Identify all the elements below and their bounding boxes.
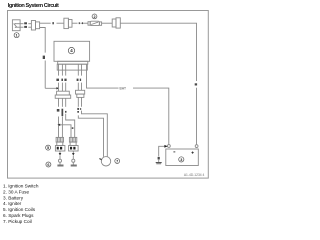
battery B1 [166, 145, 199, 166]
ref 4 igniter [68, 47, 74, 53]
igniter pins (left group) [59, 64, 66, 75]
pickup coil tab [99, 159, 101, 160]
pickup wire A [82, 111, 108, 157]
label on down branch x45 [43, 56, 45, 59]
label on ground wire [158, 157, 160, 160]
label on coil2 branch [72, 127, 74, 129]
igniter shroud [57, 64, 87, 70]
wires: igniter left pins down to 6P connector [59, 83, 66, 92]
wire: switch to connector A [28, 24, 31, 28]
svg-text:Ignition System Circuit: Ignition System Circuit [8, 3, 59, 9]
label on right vertical wire (R) [195, 83, 197, 85]
labels: switch wires [24, 22, 27, 24]
igniter U1 main box [54, 41, 90, 61]
wires below connector E [78, 97, 81, 106]
svg-text:5. Ignition Coils: 5. Ignition Coils [3, 207, 36, 212]
connector C (2P) [112, 18, 120, 28]
ignition coil 2 [69, 137, 79, 151]
wire: igniter BAT pin to battery [87, 64, 169, 145]
connector B (2P inline) [64, 18, 72, 28]
pickup wire B [78, 115, 103, 156]
svg-text:6: 6 [47, 163, 49, 167]
wire: connector A to connector B (top feed) [40, 22, 51, 24]
igniter pin labels right [77, 79, 79, 81]
svg-text:2. 30 A Fuse: 2. 30 A Fuse [3, 189, 29, 194]
spark plug 1 [57, 151, 63, 167]
svg-text:BAT: BAT [120, 87, 127, 91]
pickup coil P1 [101, 157, 110, 166]
svg-text:A1-4D-1234 4: A1-4D-1234 4 [184, 173, 205, 177]
label before fuse [82, 22, 83, 24]
arrow into battery terminal [164, 145, 167, 148]
circled ref numbers [14, 14, 184, 167]
connector E (pickup side, 2P) [76, 90, 85, 97]
wire labels row 2 right [77, 108, 79, 110]
svg-text:3. Battery: 3. Battery [3, 195, 24, 200]
connector D (coil side, 3P) [55, 91, 70, 98]
fuse F1 30A [88, 21, 102, 25]
wires: igniter right pins down to 2P connector [78, 83, 81, 91]
svg-text:1: 1 [16, 34, 18, 38]
ref 6 spark plugs [46, 162, 51, 167]
wire: connector A branch down [40, 28, 57, 89]
ref 1 ignition switch [14, 33, 19, 38]
svg-text:3: 3 [180, 158, 182, 162]
label after connector B [79, 22, 80, 24]
branch arrow [57, 124, 60, 126]
battery plus label [192, 152, 194, 154]
svg-text:7. Pickup Coil: 7. Pickup Coil [3, 219, 32, 224]
svg-text:6. Spark Plugs: 6. Spark Plugs [3, 213, 34, 218]
svg-text:2: 2 [93, 15, 95, 19]
connector A (4P) [31, 21, 39, 31]
branch wire coil1 to coil2 [59, 125, 72, 138]
wire 3 jog to coil 2 [66, 114, 75, 138]
label before connector B [52, 22, 54, 24]
wires below connector D [59, 98, 66, 107]
wire: connector C to battery (+) down right side [120, 23, 196, 145]
svg-text:4. Igniter: 4. Igniter [3, 201, 22, 206]
svg-text:5: 5 [47, 146, 49, 150]
igniter pins (right group) [78, 64, 81, 75]
ref 2 fuse [92, 14, 97, 19]
battery minus label [173, 151, 175, 153]
wire labels row 2 left [57, 109, 60, 112]
wire 1 down to coil 1 [58, 117, 60, 138]
svg-text:1. Ignition Switch: 1. Ignition Switch [3, 183, 39, 188]
tiny wire color labels [24, 22, 197, 159]
ref 5 ignition coils [46, 145, 51, 150]
ground wire from battery [159, 146, 168, 162]
ignition coil 1 [55, 137, 65, 151]
wire 2 down to coil 1 [61, 117, 63, 138]
igniter step [58, 61, 88, 64]
ref 7 pickup coil [115, 159, 120, 164]
spark plug 2 [71, 151, 77, 167]
border frame [8, 11, 209, 179]
wire: connector B to fuse [72, 22, 78, 24]
wire: fuse to connector C [102, 22, 113, 24]
svg-text:7: 7 [116, 159, 118, 163]
ref 3 battery [179, 157, 184, 162]
legend list [3, 183, 39, 224]
ignition switch S1 box [12, 20, 23, 31]
igniter pin labels left [56, 79, 59, 81]
ground symbol [156, 162, 162, 164]
junction arrow into igniter wire 1 [56, 87, 59, 89]
